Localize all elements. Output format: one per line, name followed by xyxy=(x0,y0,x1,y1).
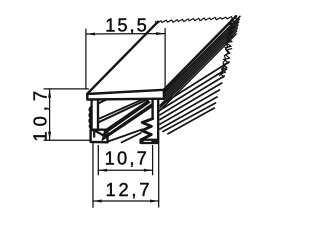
dimension 15,5 arrow right xyxy=(156,32,165,35)
channel bottom gap line 2 xyxy=(122,133,141,142)
channel inner dark band xyxy=(101,100,154,142)
channel inner double line upper xyxy=(98,99,142,119)
svg-text:12,7: 12,7 xyxy=(106,179,153,200)
dimension 15,5 extension line left xyxy=(85,29,87,89)
right leg barb 2 xyxy=(141,126,152,140)
dimension 10,7 bottom: line xyxy=(98,169,152,171)
left leg serration bumps xyxy=(89,107,91,129)
dimension 12,7: arrow left xyxy=(93,200,102,203)
profile top surface right receding edge xyxy=(164,16,236,90)
dimension 10,7 bottom: extension line left xyxy=(97,146,99,175)
dimension 10,7 bottom: arrow right xyxy=(144,169,153,172)
right leg outer edge xyxy=(157,99,159,140)
dimension 10,7 left: arrow up xyxy=(48,89,51,98)
dimension 10,7 bottom: arrow left xyxy=(98,169,107,172)
channel inner back-edge stub top left xyxy=(99,100,107,104)
dimension 15,5 extension line right xyxy=(164,29,166,92)
left leg inner edge xyxy=(97,100,99,130)
dimension 12,7: extension line right xyxy=(158,144,160,208)
right barb inner oblique xyxy=(144,131,151,134)
dimension 12,7: line xyxy=(93,200,159,202)
flange edge receding lines (upper bundle) xyxy=(159,16,240,111)
dimension 12,7: extension line left xyxy=(92,144,94,208)
break line right lower (jagged) xyxy=(220,49,232,79)
svg-text:15,5: 15,5 xyxy=(105,14,149,35)
dimension 10,7 bottom: extension line right xyxy=(152,146,154,175)
dimension 10,7 left: extension line bottom xyxy=(44,139,90,141)
dimension 10,7 left: line xyxy=(49,89,51,140)
break line right upper (jagged) xyxy=(225,18,236,48)
channel bottom gap line 1 xyxy=(108,130,142,142)
right foot block xyxy=(141,140,159,143)
profile top surface left receding edge xyxy=(87,22,158,94)
left foot inner oblique edge xyxy=(94,130,107,137)
left leg outer edge xyxy=(90,100,92,131)
channel inner double line lower xyxy=(98,100,147,123)
dimension 10,7 left: arrow down xyxy=(48,132,51,141)
right foot slit xyxy=(144,140,151,142)
left foot outline xyxy=(91,130,108,143)
dimension 10,7 left: extension line top xyxy=(44,88,88,90)
break line top (jagged) xyxy=(156,17,233,24)
left foot inner vertical edge xyxy=(93,130,95,136)
svg-text:10,7: 10,7 xyxy=(105,148,149,169)
channel inner band white stripe xyxy=(107,103,152,134)
dimension 12,7: arrow right xyxy=(150,200,159,203)
svg-text:10,7: 10,7 xyxy=(29,86,50,142)
right leg barb 1 xyxy=(142,119,152,127)
break line right scribble overlay b xyxy=(219,46,229,75)
dimension 15,5 line xyxy=(86,33,165,35)
dimension 15,5 arrow left xyxy=(86,33,95,36)
leg serration receding lines (lower fan) xyxy=(160,62,229,134)
break line right scribble overlay a xyxy=(226,20,234,46)
flange front face outline xyxy=(87,90,164,100)
right leg inner edge xyxy=(151,99,153,119)
